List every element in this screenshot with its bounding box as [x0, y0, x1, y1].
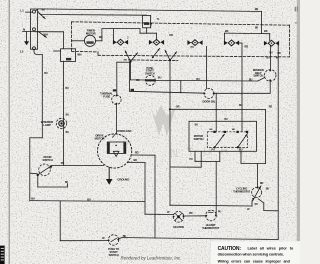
- svg-text:BK: BK: [255, 27, 259, 30]
- svg-text:L1: L1: [20, 8, 24, 12]
- svg-text:BK: BK: [255, 7, 259, 11]
- svg-text:WH: WH: [44, 32, 48, 36]
- svg-text:BU: BU: [65, 87, 69, 90]
- svg-text:BK: BK: [225, 29, 229, 33]
- svg-text:GROUND: GROUND: [117, 178, 129, 182]
- svg-text:LAMP: LAMP: [43, 123, 51, 127]
- svg-text:RD: RD: [245, 45, 249, 49]
- svg-text:SWITCH: SWITCH: [253, 74, 263, 78]
- svg-text:PU: PU: [191, 45, 195, 49]
- svg-text:BU: BU: [158, 77, 162, 80]
- svg-text:MOTOR: MOTOR: [95, 136, 105, 140]
- svg-text:THERMOSTAT: THERMOSTAT: [202, 226, 220, 230]
- svg-text:MOTOR: MOTOR: [86, 31, 96, 35]
- svg-text:PU: PU: [255, 203, 259, 206]
- svg-text:disconnection when servicing c: disconnection when servicing controls.: [218, 252, 284, 256]
- svg-text:RD: RD: [260, 182, 264, 185]
- svg-text:BK: BK: [133, 158, 137, 162]
- svg-text:RD: RD: [189, 212, 193, 215]
- svg-text:CAUTION:: CAUTION:: [218, 246, 242, 252]
- svg-text:BU: BU: [196, 78, 200, 81]
- svg-text:BK: BK: [136, 79, 140, 82]
- svg-text:BK: BK: [65, 182, 69, 184]
- svg-text:SWITCH: SWITCH: [193, 137, 203, 141]
- svg-text:PU: PU: [189, 158, 193, 161]
- svg-text:PU: PU: [61, 161, 65, 165]
- svg-text:BU: BU: [239, 104, 243, 107]
- svg-text:Wiring errors can cause improp: Wiring errors can cause improper and: [218, 260, 291, 264]
- svg-text:PU: PU: [211, 149, 215, 152]
- svg-text:RD: RD: [277, 52, 281, 55]
- svg-text:SWITCH: SWITCH: [109, 253, 119, 257]
- svg-text:BK: BK: [42, 8, 46, 12]
- svg-text:BU: BU: [66, 113, 70, 116]
- svg-text:BU: BU: [266, 56, 270, 59]
- svg-text:L2: L2: [20, 50, 24, 54]
- svg-text:BU: BU: [87, 197, 91, 201]
- svg-text:BK: BK: [264, 29, 268, 33]
- svg-text:BU: BU: [31, 197, 35, 201]
- svg-text:THERMOSTAT: THERMOSTAT: [233, 189, 251, 193]
- svg-text:BK: BK: [99, 35, 103, 39]
- svg-text:WH: WH: [77, 54, 81, 57]
- svg-text:Label all wires prior to: Label all wires prior to: [248, 247, 294, 251]
- svg-text:SWITCH: SWITCH: [145, 72, 155, 76]
- svg-text:DOOR SW.: DOOR SW.: [203, 99, 216, 103]
- svg-text:BU: BU: [249, 79, 253, 82]
- svg-text:PU: PU: [218, 210, 221, 213]
- svg-text:OR: OR: [176, 105, 180, 109]
- svg-text:RD: RD: [135, 151, 139, 155]
- svg-text:BU: BU: [66, 131, 70, 134]
- svg-text:BU: BU: [224, 118, 228, 121]
- svg-text:BU: BU: [266, 187, 270, 190]
- svg-text:RD: RD: [269, 106, 273, 109]
- svg-text:HEATER: HEATER: [173, 225, 184, 229]
- svg-text:FUSE: FUSE: [103, 94, 110, 98]
- svg-text:OR: OR: [169, 33, 173, 37]
- svg-text:Rendered by LeadVenture, Inc.: Rendered by LeadVenture, Inc.: [121, 255, 182, 260]
- svg-text:BK: BK: [123, 235, 127, 238]
- svg-text:PU: PU: [269, 52, 272, 55]
- svg-text:BU: BU: [44, 72, 48, 75]
- svg-text:SWITCH: SWITCH: [42, 158, 52, 162]
- svg-text:OVERLOAD: OVERLOAD: [117, 129, 131, 133]
- svg-text:BU: BU: [195, 124, 199, 127]
